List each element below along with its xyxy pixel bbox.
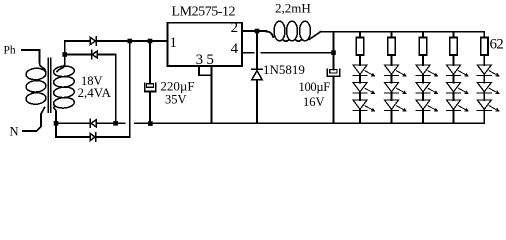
wire: 0V rail [135,122,484,124]
wire [422,93,424,100]
LED col5 bottom [477,100,499,111]
wire: output rail to LED array [321,31,485,33]
svg-text:62: 62 [490,37,504,53]
wire: stub from +12V rail to resistor R5 [483,32,485,38]
LED col2 middle [385,83,407,94]
wire: R5 to LED chain [483,55,485,65]
wire: node B to D4 [56,136,90,138]
transformer T1 primary winding [26,68,47,105]
wire: C2 bottom lead [333,76,335,123]
LED col2 bottom [385,100,407,111]
junction: D4 cathode to +rect rail [128,39,133,44]
resistor R5 [481,38,488,56]
resistor R3 [419,38,426,56]
wire: C1 bottom lead [149,91,151,123]
wire: LED chain to ground rail [422,110,424,123]
diode D2 (bridge) [92,50,98,58]
junction: C1 bottom on 0V rail [148,121,153,126]
diode D1 (bridge, top) [90,37,96,45]
wire [483,93,485,100]
op-amp/regulator U1 LM2575-12 body [168,23,243,66]
diode D4 (bridge, bottom) [90,133,96,142]
wire: R3 to LED chain [422,55,424,65]
wire: secondary bottom to node B [54,107,56,138]
wire: stub from +12V rail to resistor R2 [391,32,393,38]
wire: pin 2 output stub [242,30,267,32]
wire [359,93,361,100]
svg-text:Ph: Ph [4,45,16,57]
svg-text:2: 2 [231,20,239,36]
wire [453,75,455,82]
wire: stub from +12V rail to resistor R4 [453,32,455,38]
resistor R2 [388,38,395,56]
wire: LED chain to ground rail [391,110,393,123]
wire: node B to D3 [56,122,90,124]
LED col1 bottom [353,100,375,111]
wire: D5 anode to 0V rail [256,80,258,124]
wire [391,93,393,100]
node A / D2 cathode junction [62,52,67,57]
svg-text:4: 4 [231,41,239,57]
resistor R4 [450,38,457,56]
LED col2 top [385,65,407,76]
wire: LED chain to ground rail [453,110,455,123]
wire: output node vertical [333,32,335,70]
junction: pin2 output / D5 cathode [255,29,260,34]
wire: LED chain to ground rail [483,110,485,123]
wire [391,75,393,82]
wire: stub from +12V rail to resistor R1 [359,32,361,38]
LED col4 bottom [447,100,469,111]
diode D3 (bridge) [90,119,96,127]
capacitor C2 100uF plate [330,70,337,74]
svg-text:16V: 16V [303,95,325,109]
capacitor C1 220uF plate [146,84,153,88]
inductor L1 2,2mH [267,21,321,41]
resistor R1 [356,38,363,56]
svg-text:1N5819: 1N5819 [263,62,305,77]
svg-text:100µF: 100µF [299,80,331,94]
wire: pin 3 ground stub [199,66,212,75]
svg-text:N: N [10,125,19,139]
wire: primary bottom to N [23,108,45,132]
wire: Ph lead [22,50,45,71]
capacitor C1 220uF negative cup [145,83,156,91]
wire: pin 5 to 0V rail [211,66,213,123]
svg-text:35V: 35V [165,93,187,107]
wire: node A vertical (secondary top to bridge) [57,41,65,72]
wire: R4 to LED chain [453,55,455,65]
wire: R2 to LED chain [391,55,393,65]
transformer T1 secondary winding [53,65,74,108]
wire: C1 top lead [149,41,151,84]
wire: node A to D2 [65,54,92,56]
svg-text:1: 1 [170,35,178,51]
svg-text:2,2mH: 2,2mH [275,1,311,16]
wire [359,75,361,82]
LED col3 middle [416,83,438,94]
svg-text:5: 5 [206,52,214,68]
LED col4 middle [447,83,469,94]
wire: D3 anode to 0V junction, with crossover gap [96,122,125,124]
wire: D2 anode down to 0V node [97,55,115,124]
LED col1 top [353,65,375,76]
LED col3 bottom [416,100,438,111]
wire: R1 to LED chain [359,55,361,65]
LED col4 top [447,65,469,76]
LED col5 top [477,65,499,76]
wire: AC node A to D1, +rect rail to IC pin 1 [65,40,168,42]
svg-text:2,4VA: 2,4VA [78,85,112,100]
wire [422,75,424,82]
junction: C1 top on +rect rail [148,39,153,44]
svg-text:220µF: 220µF [160,79,194,94]
wire: stub from +12V rail to resistor R3 [422,32,424,38]
capacitor C2 100uF negative cup [327,69,339,76]
wire: LED chain to ground rail [359,110,361,123]
transformer core [48,58,51,112]
wire: pin 4 feedback to output node, with crossover gaps [242,52,334,54]
node B / D3 cathode junction [54,121,59,126]
wire: D4 cathode up to +rect rail (crosses 0V rail) [96,41,130,137]
wire [453,93,455,100]
LED col3 top [416,65,438,76]
LED col5 middle [477,83,499,94]
junction: feedback pin4 / output node [331,50,336,55]
diode D5 1N5819 [252,69,262,80]
svg-text:3: 3 [196,52,204,68]
svg-text:LM2575-12: LM2575-12 [172,5,236,20]
junction: D2/D3 anodes on 0V rail [113,121,118,126]
LED col1 middle [353,83,375,94]
wire: D5 cathode lead [256,31,258,69]
wire [483,75,485,82]
